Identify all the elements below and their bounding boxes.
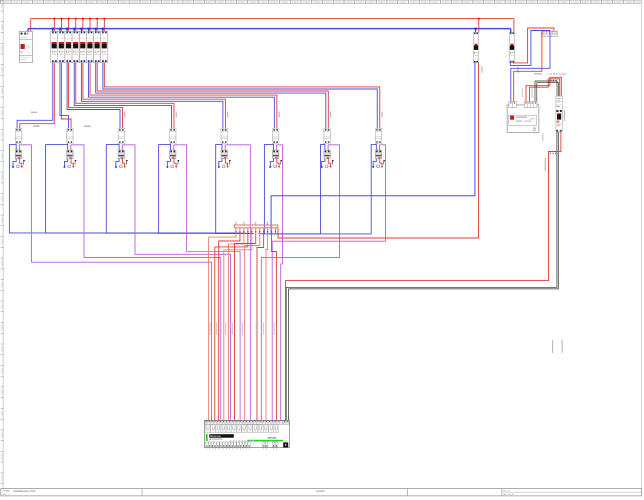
wire L feed circuit 1	[20, 63, 55, 129]
wire N loop circuit 4	[159, 145, 250, 234]
wire N feed circuit 1	[17, 63, 53, 129]
wire N to socket 6	[270, 159, 273, 167]
wire L X10 to PSU	[514, 31, 542, 104]
wire N from F9 to terminal strip	[271, 63, 475, 234]
MCB breaker F3	[65, 32, 72, 63]
wire L to socket 8	[380, 159, 382, 166]
connector X7 lower block	[324, 150, 330, 159]
label cable feed 7	[330, 112, 331, 118]
wire N feed circuit 2	[60, 63, 69, 129]
wire switched loop circuit 3	[122, 145, 230, 421]
wire N feed circuit 3	[67, 63, 120, 129]
svg-text:Blatt 1: Blatt 1	[3, 493, 10, 496]
wire N to socket 3	[116, 159, 119, 167]
wire N feed circuit 8	[103, 63, 377, 129]
wire switched loop circuit 8	[272, 145, 385, 421]
flag mark socket 2	[75, 160, 76, 165]
wire L feed circuit 4	[76, 63, 174, 129]
label DC link	[534, 73, 542, 74]
terminal N socket 7	[321, 166, 323, 168]
wire N to socket 4	[167, 159, 170, 167]
terminal N socket 1	[12, 166, 14, 168]
label breaker F10	[517, 67, 518, 74]
label cable feed 1	[33, 125, 40, 127]
wire N to socket 5	[219, 159, 222, 167]
connector X3 lower block	[118, 150, 124, 159]
wire N to socket 2	[64, 159, 67, 167]
wire output 8 to controller	[257, 233, 264, 420]
wire L to socket 3	[123, 159, 125, 166]
wire N loop circuit 2	[46, 145, 241, 233]
label right section cable	[521, 88, 524, 97]
wire output 3 to controller	[228, 233, 244, 420]
label distribution	[31, 112, 37, 114]
flag mark socket 7	[332, 160, 333, 165]
wire switched loop circuit 4	[174, 145, 240, 421]
wire DC+ down	[285, 132, 561, 420]
flag mark socket 1	[23, 160, 24, 165]
wire switched link X3	[121, 145, 123, 150]
wire switched loop circuit 7	[261, 145, 339, 421]
wire switched link X6	[276, 145, 278, 150]
wire L to socket 7	[328, 159, 330, 166]
socket outlet E6	[274, 165, 277, 168]
wire switched link X2	[70, 145, 72, 150]
wire switched link X5	[224, 145, 226, 150]
terminal L socket 7	[330, 166, 332, 168]
svg-text:Schlafzimmer 1.OG: Schlafzimmer 1.OG	[14, 490, 36, 493]
wire N link X1	[15, 144, 17, 151]
wire N link X8	[375, 144, 377, 151]
wire N link X6	[272, 144, 274, 151]
wire N to socket 1	[13, 159, 16, 167]
connector X2 lower block	[67, 150, 73, 159]
socket outlet E5	[222, 165, 225, 168]
wire DC- second PSU to F11	[537, 83, 559, 105]
MCB breaker F5	[79, 32, 86, 63]
wire L F10 to X10	[513, 62, 515, 65]
wire L feed circuit 2	[61, 63, 71, 129]
terminal L socket 3	[124, 166, 126, 168]
terminal L socket 1	[21, 166, 23, 168]
terminal N socket 8	[372, 166, 374, 168]
wire switched loop circuit 6	[277, 145, 283, 421]
terminal L socket 5	[227, 166, 229, 168]
wire N loop circuit 6	[258, 145, 273, 234]
MCB breaker F7	[94, 32, 101, 63]
wire L to socket 1	[20, 159, 22, 166]
socket outlet E3	[119, 165, 122, 168]
flag mark socket 4	[178, 160, 179, 165]
wire switched loop circuit 1	[19, 145, 211, 421]
controller A1	[204, 420, 289, 449]
wire N link X3	[118, 144, 120, 151]
svg-text:Ansicht: Ansicht	[316, 489, 325, 493]
wire N to socket 8	[373, 159, 376, 167]
connector X6 lower block	[272, 150, 278, 159]
flag mark socket 8	[383, 160, 384, 165]
wire output 2 to controller	[219, 233, 240, 420]
connector X3 upper block	[118, 128, 124, 143]
DC breaker F11	[556, 96, 562, 132]
svg-text:L 70.35 & TL 700: L 70.35 & TL 700	[548, 73, 567, 76]
terminal ticks DC link	[551, 80, 557, 82]
terminal N socket 3	[115, 166, 117, 168]
connector X7 upper block	[324, 128, 330, 143]
wire group separator	[78, 31, 80, 63]
wire N link X7	[324, 144, 326, 151]
wire output 9 to controller	[266, 233, 268, 420]
wire L to socket 2	[71, 159, 73, 166]
socket outlet E8	[377, 165, 380, 168]
MCB breaker F1	[51, 32, 58, 63]
wire output 1 to controller	[209, 233, 236, 420]
svg-text:abc. rev 01: abc. rev 01	[503, 493, 515, 496]
connector X4 lower block	[170, 150, 176, 159]
terminal N socket 5	[218, 166, 220, 168]
wire N to socket 7	[322, 159, 325, 167]
terminal L socket 2	[73, 166, 75, 168]
connector X8 lower block	[375, 150, 381, 159]
wire output 6 to controller	[235, 233, 256, 420]
terminal block X10	[542, 31, 558, 37]
socket outlet E2	[68, 165, 71, 168]
wire L feed circuit 3	[69, 63, 123, 129]
label cable feed 5	[227, 112, 228, 118]
wire N loop circuit 5	[216, 145, 254, 234]
wire DC- down A	[286, 132, 557, 420]
wire N loop circuit 3	[106, 145, 245, 234]
socket outlet E4	[171, 165, 174, 168]
svg-text:Proj. nr: Proj. nr	[503, 489, 510, 492]
wire output 4 to controller	[215, 233, 248, 420]
wire DC+ PSU to F11	[526, 77, 561, 104]
label cable feed 2	[84, 125, 91, 127]
MCB breaker F6	[86, 32, 93, 63]
terminal N socket 2	[64, 166, 66, 168]
label cable DC down	[545, 158, 546, 171]
flag mark socket 3	[126, 160, 127, 165]
wire N loop circuit 8	[267, 145, 376, 234]
wire DC- PSU to F11	[535, 81, 557, 105]
label cable feed 4	[176, 112, 177, 118]
wire L feed circuit 7	[97, 63, 328, 129]
label cable feed 3	[124, 112, 125, 118]
wire L to socket 4	[174, 159, 176, 166]
wire switched loop circuit 5	[225, 145, 250, 421]
terminal ticks DC+ junction	[550, 153, 556, 155]
wire N feed circuit 6	[89, 63, 275, 129]
terminal L socket 4	[175, 166, 177, 168]
wire switched link X1	[18, 145, 20, 150]
connector X5 lower block	[221, 150, 227, 159]
connector X6 upper block	[272, 128, 278, 143]
wire switched link X7	[327, 145, 329, 150]
wire output 7 to controller	[245, 233, 260, 420]
wire L1 bus (red phase bus)	[31, 18, 514, 33]
wire N F10 loop to PSU	[510, 31, 550, 105]
wire N feed circuit 4	[74, 63, 171, 129]
wire N feed circuit 5	[81, 63, 223, 129]
connector X5 upper block	[221, 128, 227, 143]
wire N loop circuit 7	[263, 145, 325, 234]
wire N bus (blue neutral bus)	[28, 28, 511, 33]
label breaker F9	[482, 67, 483, 74]
wire N link X5	[221, 144, 223, 151]
connector X4 upper block	[170, 128, 176, 143]
MCB breaker F4	[72, 32, 79, 63]
socket outlet E1	[16, 165, 19, 168]
wire DC+ second PSU to F11	[530, 79, 560, 105]
terminal N socket 6	[269, 166, 271, 168]
wire switched loop circuit 2	[71, 145, 221, 421]
flag mark socket 5	[229, 160, 230, 165]
socket outlet E7	[325, 165, 328, 168]
terminal L socket 6	[278, 166, 280, 168]
label cable feed 6	[279, 112, 280, 118]
wire L feed circuit 6	[90, 63, 277, 129]
wire L feed circuit 5	[83, 63, 226, 129]
power supply U1	[507, 101, 539, 132]
svg-text:Miniserver: Miniserver	[210, 435, 221, 438]
wire switched link X4	[173, 145, 175, 150]
labels controller wires	[210, 323, 275, 336]
wire output 5 to controller	[224, 233, 252, 420]
breaker F10	[509, 33, 515, 63]
MCB breaker F8	[101, 32, 108, 63]
connector X2 upper block	[67, 128, 73, 143]
terminal L socket 8	[381, 166, 383, 168]
terminal strip X9	[235, 222, 278, 233]
wire N loop circuit 1	[9, 145, 236, 233]
wire L to socket 6	[277, 159, 279, 166]
wire N link X4	[170, 144, 172, 151]
wire N feed circuit 7	[96, 63, 326, 129]
MCB breaker F2	[58, 32, 65, 63]
label cable feed 8	[381, 112, 382, 118]
connector X8 upper block	[375, 128, 381, 143]
wire output 10 to controller	[272, 233, 277, 420]
wire switched link X8	[379, 145, 381, 150]
connector X1 lower block	[15, 150, 21, 159]
flag mark socket 6	[281, 160, 282, 165]
wire L from F9 to terminal strip	[278, 63, 479, 239]
wire L feed circuit 8	[104, 63, 379, 129]
breaker F9	[473, 33, 479, 63]
RCD main switch Q1	[19, 32, 32, 63]
connector X1 upper block	[15, 128, 21, 143]
wire N link X2	[67, 144, 69, 151]
svg-text:Anlage:: Anlage:	[3, 490, 11, 493]
wire L to socket 5	[225, 159, 227, 166]
wire DC- down B	[289, 132, 559, 420]
terminal N socket 4	[167, 166, 169, 168]
